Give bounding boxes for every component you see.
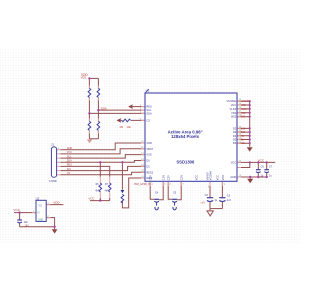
svg-text:C1P: C1P	[150, 175, 153, 180]
svg-text:GND: GND	[67, 147, 73, 150]
svg-text:CON8: CON8	[49, 179, 57, 183]
svg-text:VCC: VCC	[241, 104, 246, 107]
svg-text:GND: GND	[38, 220, 43, 222]
svg-text:N/C: N/C	[241, 142, 245, 145]
svg-text:VI: VI	[37, 212, 40, 215]
svg-text:16V: 16V	[25, 226, 30, 228]
svg-text:D4: D4	[233, 134, 237, 138]
svg-text:VSS: VSS	[146, 153, 151, 157]
svg-text:SDA: SDA	[146, 111, 152, 115]
svg-text:R5: R5	[120, 125, 124, 129]
svg-text:U2: U2	[36, 196, 40, 200]
svg-text:CS: CS	[67, 172, 71, 175]
svg-text:4u7: 4u7	[227, 199, 232, 202]
svg-text:SSD1306: SSD1306	[176, 160, 195, 165]
svg-text:VCC: VCC	[217, 175, 220, 180]
svg-text:VCOMH: VCOMH	[210, 171, 213, 181]
svg-text:VO: VO	[38, 204, 42, 207]
svg-text:VCOMH: VCOMH	[241, 100, 250, 103]
svg-text:C1N: C1N	[163, 175, 166, 180]
svg-text:VCC: VCC	[88, 197, 94, 201]
svg-text:VCC: VCC	[67, 151, 72, 154]
svg-text:+1V: +1V	[200, 200, 205, 204]
svg-text:C2P: C2P	[168, 175, 171, 180]
svg-text:GND: GND	[230, 175, 236, 179]
svg-text:D3: D3	[233, 130, 237, 134]
svg-text:P0R_A/P0R_B: P0R_A/P0R_B	[134, 183, 150, 186]
svg-text:128x64 Pixels: 128x64 Pixels	[171, 134, 200, 139]
svg-text:VSS: VSS	[231, 111, 236, 115]
svg-text:D0: D0	[146, 159, 150, 163]
svg-text:CS: CS	[146, 118, 150, 122]
svg-text:10k: 10k	[126, 125, 131, 129]
svg-text:C2N: C2N	[181, 175, 184, 180]
svg-text:SCL: SCL	[67, 155, 72, 158]
svg-text:VCC: VCC	[258, 158, 265, 162]
svg-text:VLSS: VLSS	[230, 107, 237, 111]
svg-text:D2: D2	[233, 126, 237, 130]
svg-text:VCC: VCC	[231, 103, 237, 107]
svg-text:VCC: VCC	[13, 208, 20, 212]
svg-text:VBAT: VBAT	[146, 147, 153, 151]
svg-text:RES2: RES2	[146, 170, 153, 174]
svg-text:10u: 10u	[24, 221, 29, 224]
svg-text:BS1: BS1	[241, 127, 246, 130]
svg-text:D6: D6	[233, 141, 237, 145]
svg-text:VCOMH: VCOMH	[227, 99, 237, 103]
svg-text:SDA: SDA	[67, 160, 72, 163]
svg-text:RES: RES	[67, 164, 72, 167]
svg-text:BS2: BS2	[231, 115, 236, 119]
svg-text:VLSS: VLSS	[241, 108, 248, 111]
svg-text:J1: J1	[51, 143, 54, 147]
svg-text:D5: D5	[233, 138, 237, 142]
svg-text:D/C: D/C	[67, 168, 71, 171]
svg-text:VDD: VDD	[81, 76, 87, 80]
svg-text:VSS: VSS	[241, 112, 246, 115]
svg-text:D1: D1	[146, 164, 150, 168]
svg-text:VCC: VCC	[231, 160, 237, 164]
svg-text:U1: U1	[146, 89, 150, 93]
svg-text:VDD: VDD	[222, 175, 225, 180]
svg-text:VDD: VDD	[53, 201, 60, 205]
svg-text:SDA: SDA	[101, 107, 107, 111]
svg-text:VDD: VDD	[146, 141, 152, 145]
svg-text:RES: RES	[146, 105, 152, 109]
svg-text:BS2: BS2	[241, 116, 246, 119]
svg-text:BS0: BS0	[241, 131, 246, 134]
svg-text:VCC: VCC	[195, 175, 198, 180]
